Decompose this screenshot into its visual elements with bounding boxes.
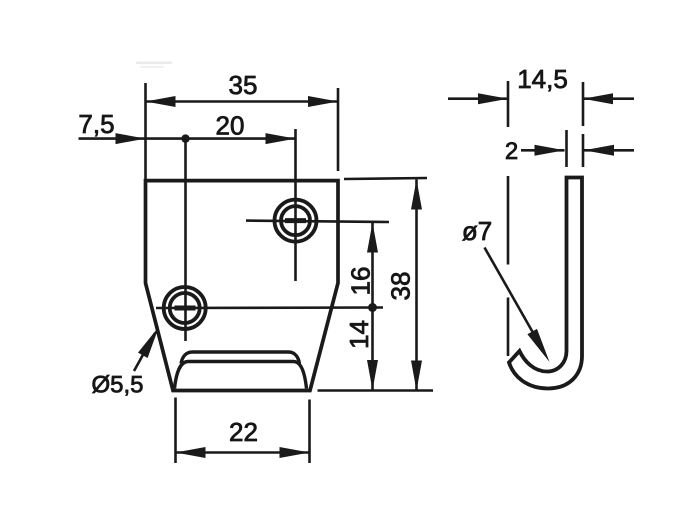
svg-text:35: 35 [229,70,258,100]
svg-text:2: 2 [505,138,518,165]
arrowhead 20 [266,133,296,144]
extension line 14,5 right [582,82,585,126]
dimension line 16 and 14 vertical [371,223,374,391]
extension line 35 right [337,88,340,171]
arrowhead 38 up [411,180,422,210]
arrowhead 7,5 [116,133,146,144]
leader arrowhead diameter 5,5 [138,327,159,359]
svg-text:7,5: 7,5 [78,109,114,139]
svg-text:Ø5,5: Ø5,5 [91,372,143,399]
svg-text:16: 16 [346,267,376,296]
top extension line for 38 [344,178,427,179]
dimension line 38 vertical [415,180,418,391]
dimension line 7,5 and 20 [79,137,296,140]
arrowhead 2 left [535,145,565,156]
extension line 22 left [174,398,177,464]
arrowhead 22 left [176,447,206,458]
dimension line 35 [146,100,339,103]
extension line 2 left [565,130,568,167]
dimension line 14,5 left part [448,97,508,100]
svg-text:22: 22 [229,417,258,447]
svg-text:38: 38 [386,272,416,301]
junction dot 14-16 [368,303,377,312]
hook left extension line lower segment [507,298,510,357]
arrowhead 14,5 left [478,93,508,104]
arrowhead 2 right [584,145,614,156]
extension line 35 left [144,83,147,179]
arrowhead 38 down [411,361,422,391]
bent tab front view lower curve [175,362,307,389]
reference dot on 20 line [181,134,189,142]
dimension line 22 [176,451,310,454]
dimension line 2 right part [584,149,634,152]
arrowhead 22 right [280,447,310,458]
leader line diameter 5,5 [134,333,155,371]
arrowhead 35 right [308,96,338,107]
arrowhead 16 up [367,223,378,253]
extension line 22 right [308,400,311,464]
upper hole vertical centerline [294,129,297,281]
upper hole horizontal centerline [246,221,389,222]
arrowhead 35 left [146,96,176,107]
svg-text:ø7: ø7 [462,216,492,246]
svg-text:14,5: 14,5 [517,64,568,94]
leader line diameter 7 [485,248,541,346]
upper hole [275,200,317,242]
lower hole horizontal centerline [156,306,383,309]
arrowhead 14 down [367,360,378,390]
dimension line 2 left part [521,149,565,152]
leader arrowhead diameter 7 [527,329,549,362]
svg-text:20: 20 [216,111,245,141]
bottom extension line for 38 and 14 [318,389,434,392]
lower hole vertical centerline [184,139,187,341]
hook left extension line middle segment [507,176,510,265]
bent tab front view upper curve [181,352,300,364]
dimension line 14,5 right part [583,97,634,100]
extension line 14,5 left [507,81,510,127]
arrowhead 14,5 right [583,93,613,104]
hook side view outline [509,178,582,389]
extension line 2 right [582,134,585,167]
svg-text:14: 14 [344,320,374,349]
lower hole [164,287,206,329]
front view part outline [146,181,339,391]
